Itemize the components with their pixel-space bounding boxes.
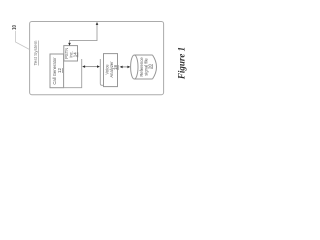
arrowhead right [97,65,100,68]
outer box: Test System boundary [30,22,164,95]
svg-text:12: 12 [57,68,62,73]
arrowhead left [82,65,85,68]
svg-text:20: 20 [147,64,152,69]
svg-text:18: 18 [113,65,118,70]
arrowhead up into outer box top edge [96,22,99,25]
svg-text:Test System: Test System [33,40,38,65]
box: Voice Analyzer 18 [104,54,118,87]
arrowhead down into PSTN top [68,43,71,46]
double-headed arrow link between call path ends [84,66,98,68]
wire: PSTN top to outer box top edge [70,24,98,45]
box: PSTN 14 [64,46,78,61]
svg-text:10: 10 [12,25,18,30]
svg-text:14: 14 [73,52,78,57]
arrowhead left into Voice Analyzer [120,66,123,69]
cylinder: Reference signal file 20 (database, lying sideways) [135,55,153,79]
box: Call Generator 12 [50,54,64,88]
wire: from Call Generator bottom right, up to link gap (left side) [64,59,82,88]
double-headed arrow: Voice Analyzer to database [122,66,129,68]
wire: right link end down to Voice Analyzer [100,59,103,85]
svg-text:Figure 1: Figure 1 [177,47,187,80]
leader line from 10 [16,31,30,50]
arrowhead right into database [127,66,130,69]
